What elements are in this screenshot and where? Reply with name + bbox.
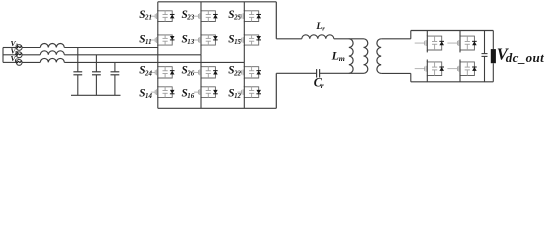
ac source VC <box>16 60 22 66</box>
wire leg1 S21-S11 link <box>157 22 159 35</box>
svg-text:14: 14 <box>145 93 152 100</box>
svg-text:11: 11 <box>145 39 152 46</box>
wire cap C to neutral bus <box>114 75 116 96</box>
svg-text:25: 25 <box>233 15 241 22</box>
svg-text:22: 22 <box>233 70 241 77</box>
wire output bottom cell 2 source stub <box>459 76 461 82</box>
label S26 <box>182 65 195 78</box>
inductor Lr <box>302 35 334 39</box>
inductor filter phase C <box>40 58 64 62</box>
wire output bottom cell 2 drain stub <box>459 60 461 62</box>
switch S12 <box>237 86 261 98</box>
svg-text:26: 26 <box>186 70 194 77</box>
wire leg3 drain lead from P bus <box>243 2 245 11</box>
wire leg1 source lead to N bus <box>157 97 159 108</box>
wire secondary top jog up <box>410 31 412 39</box>
switch S23 <box>194 10 218 22</box>
wire cap A to neutral bus <box>77 75 79 96</box>
wire leg1 phase A node down <box>157 48 159 67</box>
resistor load (bar) <box>491 49 496 63</box>
svg-text:24: 24 <box>144 70 152 77</box>
wire source VB to filter inductor <box>22 54 40 56</box>
wire secondary top lead <box>381 38 411 40</box>
capacitor filter Ca <box>73 72 82 75</box>
wire cap tap phase C <box>114 62 116 71</box>
svg-text:15: 15 <box>234 39 241 46</box>
wire leg1 drain lead from P bus <box>157 2 159 11</box>
wire source VA left lead <box>3 47 17 49</box>
wire leg1 to phase A node <box>157 45 159 47</box>
switch output bottom 2 <box>447 61 476 76</box>
label S11 <box>139 33 151 46</box>
label S23 <box>182 9 195 22</box>
svg-text:C: C <box>15 59 19 65</box>
wire tank top <box>276 38 302 40</box>
wire secondary bottom lead <box>381 72 411 74</box>
wire output top cell 1 drain stub <box>426 31 428 37</box>
label VC <box>11 54 19 65</box>
svg-text:16: 16 <box>187 93 194 100</box>
wire bottom bus N <box>158 107 276 109</box>
svg-text:13: 13 <box>187 39 194 46</box>
svg-text:L: L <box>331 48 339 62</box>
capacitor output filter <box>482 54 488 57</box>
wire cap B to neutral bus <box>95 75 97 96</box>
capacitor filter Cc <box>111 72 120 75</box>
svg-text:12: 12 <box>234 93 241 100</box>
switch output top 2 <box>447 36 476 51</box>
wire output top cell 2 drain stub <box>459 31 461 37</box>
wire top bus P <box>158 1 276 3</box>
wire source VC left lead <box>3 61 17 63</box>
switch S24 <box>151 66 175 79</box>
switch S14 <box>151 86 175 98</box>
capacitor Cr <box>317 69 320 77</box>
svg-text:dc_out: dc_out <box>506 50 545 65</box>
label S25 <box>228 9 241 22</box>
wire phase C line <box>64 61 244 63</box>
inductor filter phase B <box>40 51 64 55</box>
transformer primary winding <box>364 39 368 74</box>
wire source VA to filter inductor <box>22 47 40 49</box>
svg-text:23: 23 <box>186 15 194 22</box>
wire P bus to tank (down) <box>275 2 277 39</box>
label S12 <box>228 88 241 101</box>
wire output bottom cell 1 drain stub <box>426 60 428 62</box>
label S15 <box>228 33 241 46</box>
switch S11 <box>151 34 175 45</box>
wire leg2 S23-S13 link <box>200 22 202 35</box>
wire output top cell 1 source stub <box>426 50 428 52</box>
label VA <box>11 39 19 50</box>
label Lm <box>331 48 345 63</box>
svg-text:m: m <box>339 54 345 63</box>
label S13 <box>182 33 195 46</box>
wire cap tap phase B <box>95 55 97 72</box>
wire secondary bottom jog down <box>410 73 412 81</box>
wire output cap branch top <box>484 31 486 54</box>
transformer secondary winding <box>377 39 381 74</box>
wire leg3 phase C node down <box>243 62 245 66</box>
svg-text:r: r <box>322 25 325 32</box>
switch output bottom 1 <box>415 61 444 76</box>
wire N bus to Cr (up) <box>275 73 277 108</box>
inductor Lm (magnetizing) <box>349 39 353 74</box>
wire load branch bottom <box>492 63 494 82</box>
switch S15 <box>237 34 261 45</box>
label S22 <box>228 65 241 78</box>
wire leg3 to phase C node <box>243 45 245 62</box>
label VB <box>11 47 19 58</box>
wire output top cell 2 source stub <box>459 50 461 52</box>
wire load branch top <box>492 31 494 50</box>
ac source VB <box>16 52 22 58</box>
wire Lr to transformer primary top <box>334 38 364 40</box>
wire tank bottom left <box>276 72 316 74</box>
wire Cr to transformer primary bottom <box>320 72 364 74</box>
ac source VA <box>16 45 22 51</box>
switch S21 <box>151 10 175 22</box>
wire leg2 source lead to N bus <box>200 97 202 108</box>
label Vdc_out <box>497 45 544 66</box>
svg-text:r: r <box>321 81 324 90</box>
inductor filter phase A <box>40 43 64 47</box>
wire cap tap phase A <box>77 48 79 72</box>
label S14 <box>139 88 152 101</box>
switch S22 <box>237 66 261 79</box>
wire output top bus <box>411 30 494 32</box>
switch S25 <box>237 10 261 22</box>
label S21 <box>139 9 152 22</box>
wire capacitor neutral bus <box>71 94 121 96</box>
wire output bottom bus <box>411 81 494 83</box>
wire leg2 drain lead from P bus <box>200 2 202 11</box>
wire source VB left lead <box>3 54 17 56</box>
wire leg2 phase B node down <box>200 55 202 67</box>
wire leg3 source lead to N bus <box>243 97 245 108</box>
wire output bottom cell 1 source stub <box>426 76 428 82</box>
wire left bus (source common) <box>2 48 4 63</box>
label Cr <box>314 76 324 90</box>
wire leg3 S22-S12 link <box>243 78 245 87</box>
switch S16 <box>194 86 218 98</box>
wire leg2 to phase B node <box>200 45 202 55</box>
wire source VC to filter inductor <box>22 61 40 63</box>
svg-text:21: 21 <box>144 15 152 22</box>
wire phase A line <box>64 47 158 49</box>
switch S26 <box>194 66 218 79</box>
capacitor filter Cb <box>92 72 101 75</box>
label S24 <box>139 65 152 78</box>
switch output top 1 <box>415 36 444 51</box>
label Lr <box>315 21 325 33</box>
wire leg1 S24-S14 link <box>157 78 159 87</box>
wire phase B line <box>64 54 201 56</box>
wire output cap branch bottom <box>484 56 486 81</box>
switch S13 <box>194 34 218 45</box>
wire leg2 S26-S16 link <box>200 78 202 87</box>
wire leg3 S25-S15 link <box>243 22 245 35</box>
label S16 <box>182 88 195 101</box>
